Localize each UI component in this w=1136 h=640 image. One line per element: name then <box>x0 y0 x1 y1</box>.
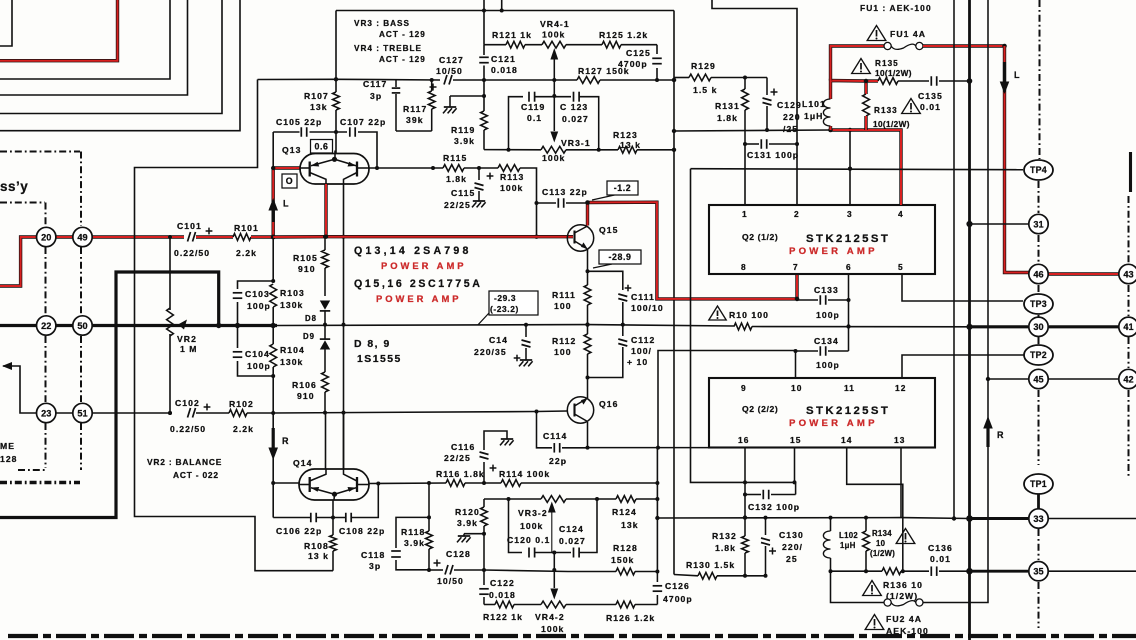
svg-text:Q14: Q14 <box>293 458 312 468</box>
capacitor C116 22/25 electrolytic <box>483 462 485 483</box>
svg-text:R120: R120 <box>455 507 480 517</box>
potentiometer VR4-1 100k <box>542 41 566 48</box>
wire C106 line <box>273 517 311 519</box>
capacitor C120 0.1 <box>528 548 530 558</box>
svg-text:ACT - 129: ACT - 129 <box>379 55 426 64</box>
wire thick 22-50 bus <box>0 324 165 327</box>
svg-text:C104: C104 <box>245 349 270 359</box>
svg-text:100p: 100p <box>816 360 840 370</box>
wire lower output line <box>831 570 883 572</box>
svg-text:C101: C101 <box>177 221 202 231</box>
wire thick 33 line <box>970 517 1029 520</box>
svg-text:R132: R132 <box>712 531 737 541</box>
svg-text:100k: 100k <box>541 624 564 634</box>
wire 45-42 <box>1049 378 1119 380</box>
svg-text:POWER AMP: POWER AMP <box>789 418 878 429</box>
wire thick 30 line <box>970 325 1029 328</box>
svg-text:C115: C115 <box>451 188 475 198</box>
svg-text:TP1: TP1 <box>1030 479 1047 489</box>
wire VR wire stub 1 <box>483 0 485 45</box>
resistor R105 910 <box>324 237 326 250</box>
wire VR3-2 line <box>484 498 541 500</box>
svg-text:R106: R106 <box>292 380 317 390</box>
svg-text:C117: C117 <box>363 79 387 89</box>
svg-text:6: 6 <box>846 262 852 272</box>
svg-text:R119: R119 <box>451 125 475 135</box>
svg-text:C134: C134 <box>814 336 839 346</box>
wire Q14 collector line <box>369 482 446 485</box>
svg-text:31: 31 <box>1033 219 1043 229</box>
dash-dot link TP3-30 <box>1038 315 1040 317</box>
svg-text:100k: 100k <box>500 183 523 193</box>
svg-text:13: 13 <box>894 435 905 445</box>
svg-text:R122 1k: R122 1k <box>483 612 523 622</box>
resistor R129 1.5k <box>674 77 689 79</box>
svg-text:39k: 39k <box>406 115 424 125</box>
wire pin2 long <box>712 0 797 205</box>
svg-text:1: 1 <box>742 209 748 219</box>
potentiometer VR2 1M <box>167 308 174 336</box>
capacitor C104 100p jog <box>237 326 239 349</box>
capacitor C132 100p <box>745 494 761 496</box>
svg-text:R134: R134 <box>872 529 892 538</box>
wire Q15 emitter down <box>587 249 589 271</box>
svg-text:8: 8 <box>741 262 747 272</box>
svg-text:R121 1k: R121 1k <box>492 30 532 40</box>
svg-text:0.027: 0.027 <box>559 536 586 546</box>
svg-text:STK2125ST: STK2125ST <box>806 405 890 417</box>
svg-text:VR4-2: VR4-2 <box>535 612 565 622</box>
svg-text:C111: C111 <box>631 292 655 302</box>
wire nested corner 3 <box>0 0 170 79</box>
svg-text:3p: 3p <box>370 91 382 101</box>
svg-text:5: 5 <box>898 262 904 272</box>
svg-text:POWER AMP: POWER AMP <box>381 260 467 271</box>
diode D9 1S1555 <box>320 340 330 349</box>
svg-text:100k: 100k <box>542 30 565 40</box>
svg-text:R: R <box>997 430 1005 440</box>
wire C114 to IC2 edge <box>588 447 710 449</box>
svg-text:C14: C14 <box>489 335 508 345</box>
svg-text:C119: C119 <box>521 102 545 112</box>
svg-text:VR4 : TREBLE: VR4 : TREBLE <box>354 44 422 53</box>
connector 45 <box>1029 369 1048 388</box>
fuse FU2 4A <box>884 599 891 606</box>
wire C132 right riser <box>795 482 797 494</box>
callout box O <box>282 174 297 188</box>
svg-text:13k: 13k <box>621 520 639 530</box>
svg-text:0.018: 0.018 <box>489 590 516 600</box>
svg-text:Q2 (2/2): Q2 (2/2) <box>742 404 778 414</box>
wire 45 line <box>988 378 1028 380</box>
assembly boundary dash-dot top <box>0 151 80 153</box>
capacitor C136 0.01 <box>930 566 932 576</box>
svg-text:100: 100 <box>554 301 572 311</box>
resistor R135 10(1/2W) <box>866 79 878 82</box>
svg-text:1 M: 1 M <box>180 344 198 354</box>
wire mid common line <box>277 324 588 327</box>
capacitor C119 0.1 <box>528 92 530 102</box>
wire pin13 down <box>900 448 902 518</box>
svg-text:FU1 4A: FU1 4A <box>890 29 926 39</box>
svg-text:128: 128 <box>0 454 18 464</box>
svg-text:2.2k: 2.2k <box>236 248 257 258</box>
wire red input corner <box>0 0 118 61</box>
capacitor C117 3p <box>395 80 397 87</box>
svg-text:0.6: 0.6 <box>314 141 328 151</box>
wire tone bottom line L <box>484 149 541 151</box>
svg-text:FU1 : AEK-100: FU1 : AEK-100 <box>860 3 932 13</box>
wiper VR4-2 arrow <box>553 553 555 589</box>
wiper VR3-2 arrow <box>551 512 553 553</box>
wire R130 line <box>674 575 698 576</box>
right edge thick line <box>1129 152 1132 192</box>
svg-text:VR4-1: VR4-1 <box>540 19 570 29</box>
svg-text:0.027: 0.027 <box>562 114 589 124</box>
svg-text:0.22/50: 0.22/50 <box>174 248 210 258</box>
svg-text:L101: L101 <box>802 99 826 109</box>
resistor R113 100k <box>498 165 520 172</box>
wire second chain lead into Q14 <box>343 413 345 469</box>
wire C105 line left end <box>272 132 274 168</box>
svg-text:R118: R118 <box>401 527 425 537</box>
svg-text:ACT - 129: ACT - 129 <box>379 30 426 39</box>
svg-text:C114: C114 <box>543 431 567 441</box>
wire red input to connector 20 <box>0 237 37 286</box>
svg-text:41: 41 <box>1123 322 1133 332</box>
wire Q14 bottom lead <box>332 500 334 518</box>
capacitor C121 0.018 <box>479 56 489 58</box>
svg-text:R112: R112 <box>552 336 576 346</box>
resistor R130 1.5k <box>698 572 717 579</box>
connector 35 <box>1029 562 1048 581</box>
resistor R119 3.9k <box>483 80 485 111</box>
wire pin3 to output sense <box>849 130 851 205</box>
svg-text:L: L <box>283 199 290 209</box>
IC Q2(1/2) STK2125ST box <box>709 205 935 274</box>
svg-text:STK2125ST: STK2125ST <box>806 233 890 245</box>
connector 42 <box>1119 369 1136 388</box>
svg-text:R102: R102 <box>229 399 254 409</box>
resistor R125 1.2k <box>602 41 621 48</box>
svg-text:R136 10: R136 10 <box>883 580 923 590</box>
svg-text:100p: 100p <box>247 361 271 371</box>
resistor R118 3.9k <box>428 483 430 531</box>
svg-text:C116: C116 <box>451 442 475 452</box>
svg-text:100: 100 <box>554 347 572 357</box>
svg-text:C125: C125 <box>626 48 651 58</box>
capacitor C111 100/10 electrolytic <box>618 294 627 297</box>
wire thick 35 left stub <box>970 570 1029 573</box>
svg-text:ACT - 022: ACT - 022 <box>173 470 219 480</box>
wire red up to fuse <box>831 46 885 81</box>
svg-text:130k: 130k <box>280 357 303 367</box>
svg-text:C130: C130 <box>779 530 804 540</box>
wire pin10 riser <box>795 351 797 378</box>
resistor R108 13k <box>332 518 334 536</box>
capacitor C114 22p <box>537 412 553 448</box>
dash-dot 35 down <box>1038 582 1040 628</box>
wire R120 to C128 node <box>483 534 485 570</box>
svg-text:2.2k: 2.2k <box>233 424 254 434</box>
svg-text:3: 3 <box>847 209 853 219</box>
test point TP1 <box>1024 474 1053 494</box>
svg-text:1μH: 1μH <box>840 541 856 550</box>
wire volume arrow left <box>3 366 37 413</box>
wire red C101-R101 <box>196 235 233 238</box>
svg-text:POWER AMP: POWER AMP <box>789 246 878 257</box>
svg-text:50: 50 <box>77 321 87 331</box>
svg-text:R130 1.5k: R130 1.5k <box>686 560 735 570</box>
transistor Q15 <box>567 225 593 251</box>
svg-text:R105: R105 <box>293 253 318 263</box>
wire C117-R117 bottom connector <box>396 130 432 132</box>
svg-text:C106 22p: C106 22p <box>276 526 322 536</box>
svg-text:ss’y: ss’y <box>0 179 28 194</box>
assembly dash-dot between connectors col2 <box>80 247 82 315</box>
wire nested corner 1 <box>0 0 12 46</box>
svg-text:C112: C112 <box>631 335 655 345</box>
svg-text:TP3: TP3 <box>1030 299 1047 309</box>
svg-text:49: 49 <box>77 232 87 242</box>
svg-text:46: 46 <box>1033 269 1043 279</box>
svg-text:R126 1.2k: R126 1.2k <box>606 613 655 623</box>
shield box thick outline <box>0 272 219 518</box>
arrow R speaker <box>986 426 989 447</box>
svg-text:51: 51 <box>77 408 87 418</box>
connector 51 <box>73 403 92 422</box>
wire 33 right <box>1049 518 1136 520</box>
wire R121 top line <box>484 44 506 46</box>
svg-text:4: 4 <box>898 209 904 219</box>
wire nested corner 5 <box>0 0 222 114</box>
svg-text:C136: C136 <box>928 543 953 553</box>
svg-text:R129: R129 <box>691 61 716 71</box>
warning triangle FU1 <box>867 26 886 41</box>
resistor R106 910 <box>322 372 329 392</box>
svg-text:22/25: 22/25 <box>444 453 471 463</box>
resistor R114 100k <box>501 480 521 487</box>
svg-text:150k: 150k <box>611 555 634 565</box>
callout box -1.2 <box>592 195 615 200</box>
svg-text:C102: C102 <box>175 398 200 408</box>
warning triangle R136 <box>863 581 882 596</box>
wire pin14 jog <box>847 448 903 572</box>
svg-text:33: 33 <box>1033 514 1043 524</box>
wire VR wire stub 2 <box>501 0 503 11</box>
resistor R102 2.2k <box>196 412 229 414</box>
wire Q16 base line <box>537 410 568 413</box>
wire pin6 down <box>848 274 850 351</box>
capacitor C123 0.027 <box>573 92 575 102</box>
svg-text:0.01: 0.01 <box>920 102 941 112</box>
svg-text:100p: 100p <box>247 301 271 311</box>
svg-text:(1/2W): (1/2W) <box>886 591 918 601</box>
capacitor C129 220/25 electrolytic <box>766 78 768 96</box>
wire to C113 <box>520 168 537 203</box>
resistor R116 1.8k <box>446 480 465 487</box>
ground R120 tap <box>464 533 484 535</box>
svg-text:R114 100k: R114 100k <box>499 469 550 479</box>
svg-text:10/50: 10/50 <box>436 66 463 76</box>
connector 23 <box>37 403 56 422</box>
svg-text:R117: R117 <box>403 104 427 114</box>
schematic bottom border dash-dot <box>8 634 1136 638</box>
svg-text:L: L <box>1014 70 1021 80</box>
wire Q16 emitter up <box>587 378 589 399</box>
svg-text:Q13: Q13 <box>282 145 301 155</box>
svg-text:100p: 100p <box>816 310 840 320</box>
resistor R134 10 (1/2W) <box>865 518 867 531</box>
wire VR2 column <box>169 237 171 310</box>
wire thick bus VR2 wiper segment <box>165 324 277 327</box>
wire nested corner 6 <box>0 0 240 131</box>
right edge dash-dot to 43 <box>1128 196 1130 264</box>
resistor R117 39k <box>431 80 433 91</box>
resistor R112 100 <box>587 325 589 334</box>
IC Q2(2/2) STK2125ST box <box>709 378 935 448</box>
svg-text:D8: D8 <box>305 314 317 323</box>
capacitor C112 100/10 electrolytic <box>622 325 624 336</box>
potentiometer VR3-2 100k <box>541 496 566 503</box>
wire FU2 branch <box>831 571 885 602</box>
resistor R10 100 <box>734 323 752 330</box>
transistor Q16 <box>567 397 593 423</box>
wire long left loop vertical <box>135 80 334 571</box>
capacitor C124 0.027 <box>573 548 575 558</box>
wire down to C106 line <box>272 483 274 518</box>
svg-text:VR3 : BASS: VR3 : BASS <box>354 19 410 28</box>
svg-text:POWER AMP: POWER AMP <box>376 293 462 304</box>
svg-text:R131: R131 <box>715 101 740 111</box>
svg-text:43: 43 <box>1123 269 1133 279</box>
wire FU2 to R bus <box>923 470 988 603</box>
wire red Q15 node to pin7 <box>588 202 798 299</box>
svg-text:R123: R123 <box>613 130 638 140</box>
capacitor C113 22p <box>537 202 557 204</box>
svg-text:220/35: 220/35 <box>474 347 507 357</box>
svg-text:(-23.2): (-23.2) <box>490 304 519 314</box>
capacitor C14 220/35 electrolytic <box>525 325 527 337</box>
svg-text:L102: L102 <box>839 531 858 540</box>
svg-text:100k: 100k <box>520 521 543 531</box>
svg-text:13 k: 13 k <box>308 551 329 561</box>
connector 49 <box>73 227 92 246</box>
capacitor C105 22p <box>300 127 302 137</box>
resistor R104 130k <box>272 326 274 345</box>
wire red fuse to L arrow column <box>923 44 1005 47</box>
svg-text:VR3-2: VR3-2 <box>518 508 548 518</box>
wire red Q13 emitter down <box>324 184 327 237</box>
svg-text:Q13,14 2SA798: Q13,14 2SA798 <box>354 245 472 257</box>
svg-text:910: 910 <box>298 264 316 274</box>
wire long vertical right of tone block <box>673 11 675 575</box>
wire red 46-43 <box>1049 272 1119 275</box>
svg-text:TP4: TP4 <box>1030 165 1047 175</box>
dash-dot 41-42 <box>1128 337 1130 368</box>
assembly dash-dot between connectors left col <box>45 247 47 315</box>
svg-text:12: 12 <box>895 383 906 393</box>
ground R119 top tap <box>450 95 484 97</box>
wire top feed line <box>336 10 674 12</box>
wire right vertical of lower tone <box>656 448 658 572</box>
wire red Q13 emitter to Q15 base <box>273 235 573 239</box>
wire C113 junction down <box>536 203 538 237</box>
svg-text:C122: C122 <box>490 578 515 588</box>
svg-text:VR2 : BALANCE: VR2 : BALANCE <box>147 457 222 467</box>
capacitor C135 0.01 <box>898 80 929 82</box>
svg-text:C129: C129 <box>777 100 802 110</box>
svg-text:R111: R111 <box>552 290 576 300</box>
svg-text:C127: C127 <box>439 55 464 65</box>
resistor R132 1.8k <box>742 536 749 553</box>
svg-text:C132 100p: C132 100p <box>748 502 800 512</box>
capacitor C128 10/50 electrolytic <box>429 569 443 571</box>
resistor R101 2.2k <box>233 234 251 241</box>
svg-text:3.9k: 3.9k <box>404 538 425 548</box>
svg-text:VR2: VR2 <box>177 334 197 344</box>
wire R103 column <box>272 237 274 281</box>
wire red R101 to junction <box>251 235 273 238</box>
wire red L101 loop bottom <box>831 128 867 131</box>
resistor R121 1k <box>506 41 525 48</box>
svg-text:4700p: 4700p <box>663 594 693 604</box>
fuse FU1 4A <box>884 42 891 49</box>
wire red L output down <box>1005 46 1029 273</box>
svg-text:R108: R108 <box>304 541 329 551</box>
svg-text:C128: C128 <box>446 549 471 559</box>
svg-text:R: R <box>282 436 290 446</box>
svg-text:25: 25 <box>786 554 798 564</box>
svg-text:ME: ME <box>0 441 15 451</box>
diode D8 1S1555 <box>320 301 330 310</box>
svg-text:R125 1.2k: R125 1.2k <box>599 30 648 40</box>
dash-dot 45 down <box>1038 390 1040 465</box>
wiper VR4-1 arrow <box>553 59 555 96</box>
wire Q16 collector down <box>587 422 589 448</box>
callout box 0.6 <box>311 140 333 154</box>
callout box -28.9 <box>593 264 612 268</box>
dash-dot link 46-TP3 <box>1038 285 1040 293</box>
warning triangle R134 <box>896 529 915 544</box>
svg-text:R107: R107 <box>304 91 329 101</box>
callout box -29.3 -23.2 <box>489 291 538 315</box>
svg-text:100/: 100/ <box>631 346 652 356</box>
svg-text:C108 22p: C108 22p <box>339 526 385 536</box>
capacitor C134 100p <box>796 350 819 352</box>
wire 23-51 line <box>46 412 172 414</box>
potentiometer VR3-1 100k zigzag <box>541 146 566 153</box>
capacitor C103 100p jog <box>238 281 274 289</box>
resistor R107 13k <box>335 110 337 132</box>
resistor R120 3.9k <box>483 499 485 507</box>
resistor R126 1.2k <box>616 601 635 608</box>
capacitor C122 0.018 <box>483 570 485 585</box>
svg-text:14: 14 <box>841 435 852 445</box>
wire pin16 column <box>744 447 746 536</box>
wire C134 left line <box>658 351 796 448</box>
svg-text:23: 23 <box>41 408 51 418</box>
svg-text:D9: D9 <box>303 332 315 341</box>
svg-text:0.018: 0.018 <box>491 65 518 75</box>
svg-text:15: 15 <box>790 435 801 445</box>
wire nested corner 4 <box>0 0 188 95</box>
svg-text:FU2 4A: FU2 4A <box>886 614 922 624</box>
wire long vertical to pin15 <box>691 169 796 483</box>
svg-text:C105 22p: C105 22p <box>276 117 322 127</box>
dash-dot 33-35 <box>1038 529 1040 560</box>
warning triangle R10 <box>709 306 726 320</box>
